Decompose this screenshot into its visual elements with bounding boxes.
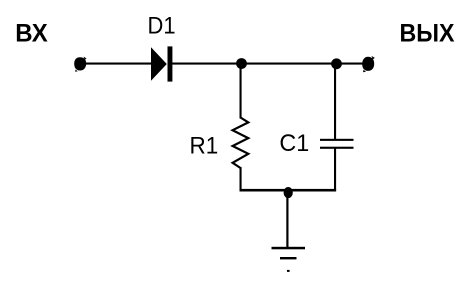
wire C1 down to bottom rail	[334, 148, 336, 192]
wire input to diode anode	[84, 63, 152, 65]
svg-text:R1: R1	[190, 133, 219, 160]
junction node B (C1 branch)	[331, 58, 342, 69]
junction node C (ground node)	[284, 187, 293, 198]
svg-text:ВЫХ: ВЫХ	[400, 20, 455, 48]
wire R1 down to bottom rail	[240, 167, 242, 191]
svg-text:C1: C1	[279, 130, 309, 157]
capacitor C1 top plate	[320, 139, 354, 141]
resistor R1 zigzag	[233, 118, 249, 169]
diode D1 triangle (anode)	[151, 47, 167, 81]
wire node A down to R1	[240, 64, 242, 119]
ground bar 3 (dot)	[287, 270, 290, 272]
output terminal dot	[362, 56, 375, 72]
svg-text:D1: D1	[148, 12, 176, 39]
svg-text:ВХ: ВХ	[15, 20, 48, 48]
ground bar 1	[272, 247, 306, 250]
capacitor C1 bottom plate	[320, 147, 354, 149]
junction node A (R1 branch)	[236, 58, 247, 69]
wire diode to output terminal	[172, 63, 363, 65]
bottom rail wire	[240, 189, 337, 192]
input terminal dot	[74, 57, 86, 72]
wire node B down to C1	[334, 64, 336, 140]
diode D1 cathode bar	[168, 46, 173, 81]
wire ground node down to ground	[286, 192, 288, 249]
ground bar 2	[280, 257, 297, 259]
